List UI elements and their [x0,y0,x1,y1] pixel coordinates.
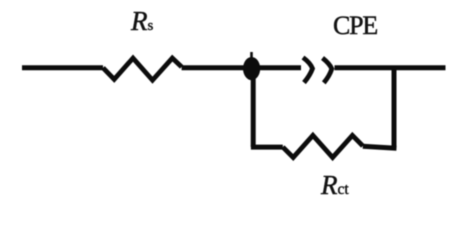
node A (junction dot) [243,57,260,80]
label CPE [333,11,377,41]
wire right of CPE [335,65,446,70]
wire stub above node [250,52,253,60]
resistor R2 (Rct zigzag) [283,135,363,157]
resistor R1 (Rs zigzag) [103,58,182,80]
wire left vertical of parallel loop [251,78,256,147]
wire bottom-left segment [251,145,283,150]
capacitor CPE chevron 2 [323,58,332,83]
wire bottom-right segment [363,146,397,148]
label Rct [321,170,349,201]
wire middle (resistor to CPE) [182,65,301,70]
wire left lead [22,65,103,70]
label Rs [131,6,153,37]
capacitor CPE chevron 1 [303,58,313,83]
wire right vertical of parallel loop [392,68,397,149]
